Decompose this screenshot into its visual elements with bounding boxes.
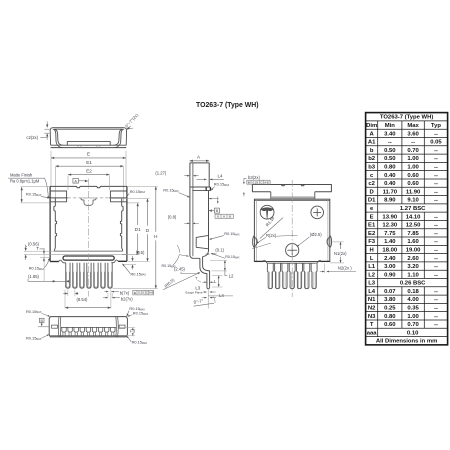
svg-text:Gauge Plane: Gauge Plane <box>185 290 203 294</box>
svg-text:--: -- <box>434 131 438 137</box>
svg-text:Dim: Dim <box>366 123 377 129</box>
leads (front view) <box>267 263 273 288</box>
svg-text:11.70: 11.70 <box>383 189 398 195</box>
side notch right (front view) <box>330 235 332 247</box>
svg-text:2.60: 2.60 <box>407 256 419 262</box>
svg-text:T: T <box>370 322 374 328</box>
svg-text:E1: E1 <box>368 223 376 229</box>
svg-text:Max: Max <box>407 123 419 129</box>
svg-text:T: T <box>36 246 39 251</box>
svg-text:L4: L4 <box>218 174 223 179</box>
svg-text:b: b <box>370 148 374 154</box>
side view bottom and lead bend <box>190 256 200 258</box>
svg-text:11.90: 11.90 <box>406 189 421 195</box>
svg-text:19.00: 19.00 <box>406 247 421 253</box>
svg-text:Matte Finish: Matte Finish <box>10 173 33 178</box>
center line (back view) <box>88 179 90 297</box>
dim L2 <box>210 259 227 261</box>
svg-text:1.00: 1.00 <box>407 314 419 320</box>
svg-text:--: -- <box>434 165 438 171</box>
svg-text:D1: D1 <box>135 227 141 232</box>
dimension table <box>366 113 448 345</box>
svg-text:0.90: 0.90 <box>384 272 396 278</box>
svg-text:--: -- <box>434 264 438 270</box>
center keying bump <box>81 198 96 206</box>
svg-text:--: -- <box>411 140 415 146</box>
svg-text:E: E <box>87 152 90 157</box>
svg-text:MAX: MAX <box>143 313 149 316</box>
svg-text:c2(2x): c2(2x) <box>26 135 38 140</box>
view: side view outline <box>190 162 209 164</box>
svg-text:L1: L1 <box>368 264 376 270</box>
flange bottom with hooks <box>50 261 59 263</box>
svg-text:Ra 0.8µm1.1µM: Ra 0.8µm1.1µM <box>10 179 40 184</box>
svg-text:MAX: MAX <box>224 184 230 187</box>
svg-text:R0.15: R0.15 <box>225 255 235 259</box>
svg-text:8.90: 8.90 <box>384 198 396 204</box>
svg-text:R0.15: R0.15 <box>163 188 173 193</box>
svg-text:B: B <box>229 215 231 219</box>
svg-text:C: C <box>146 291 148 295</box>
svg-text:L2: L2 <box>229 273 234 278</box>
svg-text:0.60: 0.60 <box>407 173 419 179</box>
svg-text:--: -- <box>434 214 438 220</box>
bottom view ear blocks <box>52 325 58 328</box>
svg-text:--: -- <box>434 156 438 162</box>
svg-text:b(7x): b(7x) <box>120 290 130 295</box>
svg-text:All Dimensions in mm: All Dimensions in mm <box>376 339 438 345</box>
svg-text:TO263-7 (Type WH): TO263-7 (Type WH) <box>196 102 259 109</box>
svg-text:--: -- <box>434 289 438 295</box>
svg-text:H: H <box>370 247 374 253</box>
svg-text:0.25: 0.25 <box>384 306 396 312</box>
svg-text:MAX: MAX <box>174 190 180 193</box>
view: back view body outline <box>50 186 127 187</box>
svg-text:R0.15: R0.15 <box>133 310 143 315</box>
svg-text:MAX: MAX <box>39 268 45 271</box>
svg-text:3.40: 3.40 <box>384 131 396 137</box>
svg-text:b2(7x): b2(7x) <box>121 296 133 301</box>
svg-text:Min: Min <box>385 123 396 129</box>
svg-text:7.75: 7.75 <box>384 231 396 237</box>
svg-text:1.00: 1.00 <box>407 156 419 162</box>
svg-text:D1: D1 <box>368 198 376 204</box>
svg-text:14.10: 14.10 <box>406 214 421 220</box>
svg-text:c2: c2 <box>368 181 375 187</box>
svg-text:1.40: 1.40 <box>384 239 396 245</box>
svg-text:N2: N2 <box>368 306 376 312</box>
hidden tab edge (dashed) <box>68 197 110 199</box>
svg-text:b3: b3 <box>368 165 376 171</box>
svg-text:A: A <box>74 179 77 183</box>
svg-text:E1: E1 <box>86 160 92 165</box>
svg-text:MAX: MAX <box>36 311 42 314</box>
svg-text:(8.54): (8.54) <box>77 297 89 302</box>
svg-text:3.20: 3.20 <box>407 264 419 270</box>
svg-text:H: H <box>154 234 157 239</box>
svg-text:--: -- <box>434 306 438 312</box>
center hole circle <box>286 244 299 257</box>
dim e (lead pitch) <box>67 290 69 297</box>
svg-text:3.80: 3.80 <box>384 297 396 303</box>
svg-text:D: D <box>370 189 374 195</box>
svg-text:0.05: 0.05 <box>430 140 442 146</box>
svg-text:N1: N1 <box>368 297 376 303</box>
svg-text:R0.15: R0.15 <box>224 231 234 236</box>
extension lines right side <box>110 198 150 200</box>
side view tab with end cap <box>190 186 211 188</box>
svg-text:0.50: 0.50 <box>384 148 396 154</box>
side view standoff bump <box>196 235 208 248</box>
svg-text:L: L <box>370 256 374 262</box>
svg-text:R0.15: R0.15 <box>132 339 142 344</box>
svg-text:Typ: Typ <box>431 123 441 129</box>
svg-text:3.60: 3.60 <box>407 131 419 137</box>
svg-text:(0.8): (0.8) <box>168 215 177 220</box>
svg-text:A: A <box>370 131 375 137</box>
svg-text:0.25: 0.25 <box>253 180 259 184</box>
svg-text:F3: F3 <box>130 329 136 334</box>
svg-text:18.00: 18.00 <box>382 247 397 253</box>
svg-text:TO263-7 (Type WH): TO263-7 (Type WH) <box>380 115 433 121</box>
svg-text:12.30: 12.30 <box>382 223 397 229</box>
svg-text:0.25: 0.25 <box>138 291 144 295</box>
svg-text:--: -- <box>434 272 438 278</box>
svg-text:R0.15: R0.15 <box>162 264 172 268</box>
leads (back view) <box>66 263 70 288</box>
svg-text:--: -- <box>434 322 438 328</box>
svg-text:R0.15: R0.15 <box>29 265 39 270</box>
svg-text:--: -- <box>434 198 438 204</box>
svg-text:12.50: 12.50 <box>406 223 421 229</box>
svg-text:--: -- <box>434 247 438 253</box>
svg-text:3.00: 3.00 <box>384 264 396 270</box>
svg-text:0.40: 0.40 <box>384 181 396 187</box>
svg-text:0.60: 0.60 <box>384 322 396 328</box>
bottom view lead scallops <box>61 326 116 328</box>
dim H <box>155 187 157 232</box>
svg-text:N1(2x): N1(2x) <box>334 251 347 256</box>
tolerance frame (side view) <box>215 214 233 218</box>
svg-text:MAX: MAX <box>235 256 240 259</box>
svg-text:aaa: aaa <box>367 330 378 336</box>
svg-text:1.00: 1.00 <box>407 165 419 171</box>
svg-text:B: B <box>216 209 219 213</box>
svg-text:--: -- <box>434 256 438 262</box>
svg-text:N3: N3 <box>368 314 376 320</box>
svg-text:E2: E2 <box>368 231 376 237</box>
svg-text:--: -- <box>434 239 438 245</box>
svg-text:MAX: MAX <box>36 338 42 341</box>
svg-text:--: -- <box>434 231 438 237</box>
lead tip extension line <box>207 290 209 309</box>
dim F3 <box>119 327 136 329</box>
small front-face marks <box>209 198 219 200</box>
svg-text:A: A <box>223 215 225 219</box>
extension lines E/E1 <box>50 151 52 186</box>
svg-text:R(2x): R(2x) <box>266 233 277 238</box>
svg-text:--: -- <box>388 140 392 146</box>
svg-text:b2: b2 <box>368 156 376 162</box>
svg-text:7.85: 7.85 <box>407 231 419 237</box>
svg-text:L4: L4 <box>368 289 376 295</box>
dim c (side view top) <box>184 175 189 177</box>
screw cross circle <box>311 206 324 219</box>
svg-text:F3: F3 <box>368 239 376 245</box>
svg-text:R0.15: R0.15 <box>26 309 36 314</box>
front view neck with metal band <box>270 192 272 199</box>
svg-text:--: -- <box>434 148 438 154</box>
view: top profile (tray) <box>51 144 127 146</box>
svg-text:0.40: 0.40 <box>384 173 396 179</box>
svg-text:R0.15: R0.15 <box>214 182 224 187</box>
svg-text:L3: L3 <box>368 281 376 287</box>
svg-text:0.70: 0.70 <box>407 322 419 328</box>
svg-text:1.10: 1.10 <box>407 272 419 278</box>
svg-text:MAX: MAX <box>234 234 240 237</box>
svg-text:4.00: 4.00 <box>407 297 419 303</box>
svg-text:--: -- <box>434 223 438 229</box>
svg-text:(0.5): (0.5) <box>136 250 145 255</box>
svg-text:0.26 BSC: 0.26 BSC <box>400 281 426 287</box>
svg-text:A1: A1 <box>368 140 376 146</box>
dim D1 <box>137 203 139 225</box>
logo T mark <box>261 208 273 211</box>
svg-text:L4: L4 <box>219 293 224 298</box>
body left edge with notches <box>54 198 57 251</box>
svg-text:0.80: 0.80 <box>384 314 396 320</box>
svg-text:C: C <box>260 180 262 184</box>
dim N1(2x) <box>332 241 343 243</box>
svg-text:0.50: 0.50 <box>384 156 396 162</box>
svg-text:0.60: 0.60 <box>407 181 419 187</box>
dim L <box>212 274 223 276</box>
svg-text:E: E <box>370 214 374 220</box>
svg-text:--: -- <box>434 314 438 320</box>
svg-text:1.27 BSC: 1.27 BSC <box>400 206 426 212</box>
svg-text:0.10: 0.10 <box>407 330 419 336</box>
svg-text:R0.15: R0.15 <box>26 192 36 197</box>
datum flag B (bottom view) <box>39 318 44 322</box>
svg-text:MAX: MAX <box>141 274 147 277</box>
view: bottom edge view outline <box>49 317 127 337</box>
bottom view end curves <box>57 317 60 337</box>
svg-text:--: -- <box>434 181 438 187</box>
svg-text:--: -- <box>434 173 438 179</box>
svg-text:13.90: 13.90 <box>382 214 397 220</box>
svg-text:0.35: 0.35 <box>407 306 419 312</box>
body bottom lines <box>54 250 122 252</box>
tab ears (back view) <box>50 191 67 202</box>
svg-text:0.70: 0.70 <box>407 148 419 154</box>
svg-text:--: -- <box>434 189 438 195</box>
svg-text:MAX: MAX <box>142 342 148 345</box>
dim D <box>147 199 149 226</box>
svg-text:A-B: A-B <box>264 181 269 184</box>
svg-text:0.18: 0.18 <box>407 289 419 295</box>
svg-text:0.07: 0.07 <box>384 289 396 295</box>
side notch left (front view) <box>253 235 255 247</box>
tray plate tick marks <box>77 145 79 147</box>
svg-text:L2: L2 <box>368 272 376 278</box>
svg-text:MAX: MAX <box>36 194 42 197</box>
front view bottom edge with hooks <box>254 260 263 262</box>
left unlabeled tab-height dim <box>21 186 50 188</box>
svg-text:R0.15: R0.15 <box>130 189 140 194</box>
svg-text:(2.45): (2.45) <box>174 266 186 271</box>
svg-text:MAX: MAX <box>171 266 176 269</box>
body right edge with notches <box>120 198 123 251</box>
datum flag A <box>73 179 79 184</box>
svg-text:R0.15: R0.15 <box>131 271 141 276</box>
svg-text:MAX: MAX <box>140 191 146 194</box>
svg-text:N2(2x ): N2(2x ) <box>338 265 352 270</box>
view: front view body <box>254 199 329 261</box>
svg-text:(1.27): (1.27) <box>155 170 167 175</box>
front view center line <box>291 180 293 297</box>
svg-text:(Ø2.5): (Ø2.5) <box>310 232 322 237</box>
view: front view tab bar <box>252 185 331 192</box>
svg-text:R0.15: R0.15 <box>26 336 36 341</box>
dim N2(2x) <box>330 262 344 264</box>
svg-text:E2: E2 <box>86 168 92 173</box>
logo circle <box>260 205 274 219</box>
svg-text:9.10: 9.10 <box>407 198 419 204</box>
svg-text:0.80: 0.80 <box>384 165 396 171</box>
svg-text:A-B: A-B <box>149 291 154 295</box>
svg-text:(1.85): (1.85) <box>28 274 40 279</box>
datum flag B (side view) <box>209 209 212 211</box>
svg-text:2.40: 2.40 <box>384 256 396 262</box>
svg-text:--: -- <box>434 297 438 303</box>
svg-text:1.60: 1.60 <box>407 239 419 245</box>
standoff bar (stadium) <box>63 256 114 260</box>
svg-text:(0.1): (0.1) <box>215 248 224 253</box>
